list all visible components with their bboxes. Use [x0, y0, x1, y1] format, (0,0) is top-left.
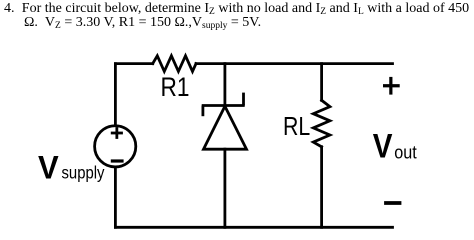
svg-text:supply: supply — [62, 163, 106, 182]
minus terminal mark of source — [111, 159, 124, 162]
svg-text:RL: RL — [283, 112, 310, 142]
svg-text:out: out — [394, 142, 417, 163]
wire RL branch upper — [320, 64, 323, 101]
plus output terminal label — [385, 79, 399, 94]
wire top rail right segment — [196, 62, 393, 65]
wire top rail left segment — [115, 62, 152, 65]
wire bottom rail — [115, 226, 392, 229]
svg-text:R1: R1 — [160, 72, 189, 102]
svg-text:V: V — [373, 127, 393, 165]
resistor RL — [313, 100, 330, 147]
wire zener branch lower — [223, 149, 226, 227]
plus terminal mark of source — [111, 127, 123, 139]
problem text line 2 — [24, 15, 261, 31]
wire left branch lower — [114, 168, 117, 227]
label V_supply — [38, 149, 105, 186]
svg-text:V: V — [38, 149, 59, 186]
minus output terminal label — [386, 201, 400, 205]
wire zener branch upper — [223, 64, 226, 106]
zener diode D1 anode triangle — [204, 106, 247, 149]
zener diode D1 cathode bar with bent ends — [202, 93, 245, 117]
wire RL branch lower — [320, 147, 323, 228]
voltage source V_supply — [95, 126, 136, 167]
resistor R1 — [153, 56, 196, 72]
label V_out — [373, 127, 417, 165]
wire left branch upper — [114, 64, 117, 125]
problem text line 1 — [4, 1, 469, 17]
